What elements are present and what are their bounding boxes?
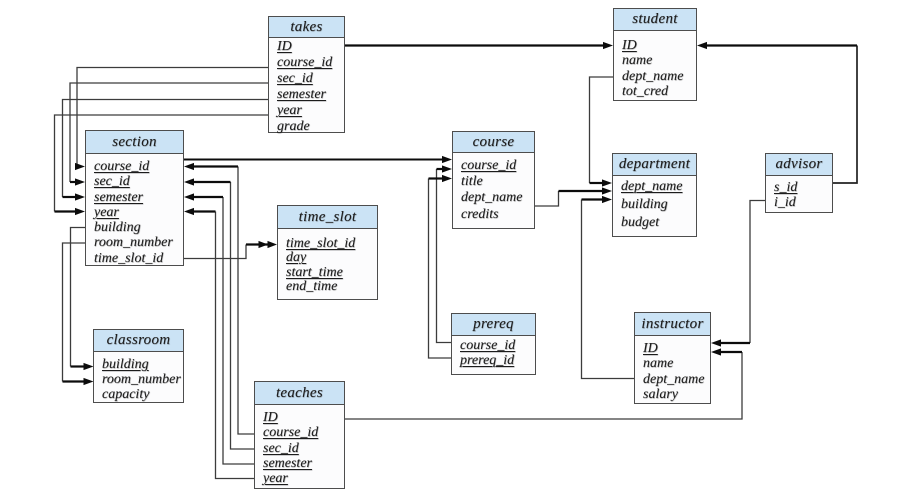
table section (85, 130, 184, 266)
wire section.room_number -> classroom.room_number (63, 243, 94, 385)
table student (613, 8, 697, 101)
wire teaches.semester -> section.semester (184, 193, 254, 464)
wire section.course_id -> course.course_id (184, 156, 452, 163)
wire course.dept_name -> department.dept_name (535, 187, 613, 206)
wire takes.course_id -> section.course_id (75, 68, 268, 171)
wire takes.year -> section.year (55, 115, 269, 215)
wire advisor.s_id -> student.ID (697, 42, 857, 183)
table teaches (254, 381, 345, 489)
table classroom (93, 329, 184, 403)
wire prereq.course_id -> course.course_id (437, 165, 453, 342)
wire teaches.course_id -> section.course_id (184, 163, 254, 434)
wire takes.sec_id -> section.sec_id (70, 83, 268, 186)
table department (612, 153, 697, 237)
table prereq (451, 313, 536, 375)
table takes (268, 16, 345, 133)
table course (452, 131, 535, 229)
table time_slot (277, 205, 378, 300)
wire teaches.year -> section.year (184, 208, 254, 479)
wire advisor.i_id -> instructor.ID (711, 201, 765, 347)
wire teaches.sec_id -> section.sec_id (184, 178, 254, 449)
table instructor (634, 312, 711, 404)
wire teaches.ID -> instructor.ID (345, 348, 742, 419)
wire section.time_slot_id -> time_slot.time_slot_id (double arrow) (184, 241, 277, 259)
table advisor (765, 153, 833, 213)
wire takes.semester -> section.semester (63, 100, 269, 201)
wire instructor.dept_name -> department.dept_name (582, 196, 635, 379)
wire prereq.prereq_id -> course.course_id (429, 175, 453, 358)
wire student.dept_name -> department.dept_name (590, 77, 614, 187)
wire takes.ID -> student.ID (345, 42, 613, 49)
wire section.building -> classroom.building (71, 228, 94, 371)
